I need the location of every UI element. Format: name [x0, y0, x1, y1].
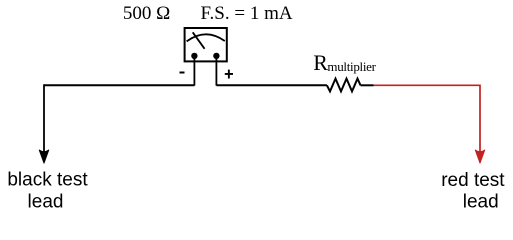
svg-text:red test: red test	[441, 170, 505, 191]
meter movement M1: scale arc	[187, 34, 225, 41]
svg-text:lead: lead	[28, 192, 64, 213]
svg-text:500 Ω: 500 Ω	[123, 3, 170, 24]
meter terminal - (left stud)	[191, 53, 197, 59]
wire: right terminal lead down	[215, 56, 217, 86]
meter movement M1: needle	[193, 32, 205, 49]
wire: short black segment after resistor	[361, 84, 374, 86]
wire: right horizontal run to resistor	[216, 84, 327, 86]
meter movement M1: case	[185, 28, 227, 61]
meter terminal + (right stud)	[213, 53, 219, 59]
svg-text:R: R	[313, 50, 328, 75]
wire: left horizontal run	[44, 84, 194, 86]
wire: red test lead run (horizontal + vertical drop)	[374, 85, 481, 152]
svg-text:lead: lead	[463, 191, 499, 212]
polarity label +	[225, 70, 233, 79]
black test lead arrowhead	[39, 150, 49, 163]
svg-text:black test: black test	[7, 170, 88, 191]
red test lead arrowhead	[475, 150, 485, 163]
resistor Rmultiplier (zigzag body)	[327, 79, 361, 92]
svg-text:multiplier: multiplier	[327, 59, 376, 74]
wire: black test lead vertical drop	[43, 84, 45, 152]
svg-text:F.S. = 1 mA: F.S. = 1 mA	[201, 3, 293, 24]
polarity label -	[180, 72, 185, 74]
wire: left terminal lead down	[193, 56, 195, 86]
